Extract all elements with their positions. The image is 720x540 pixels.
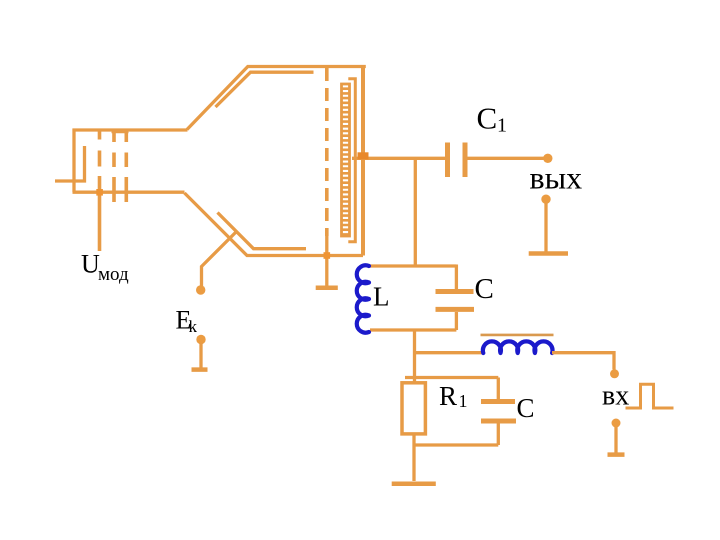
svg-text:мод: мод [98, 264, 129, 285]
node vyh lower dot [541, 195, 550, 204]
wire Ek terminal lead [199, 343, 202, 368]
junction C1 branch / right wall [358, 152, 369, 159]
middle grid dashed line [325, 68, 329, 236]
ground bar vyh [529, 251, 568, 256]
node Ek lower dot [196, 335, 205, 344]
svg-text:C: C [477, 100, 498, 135]
svg-text:k: k [189, 317, 198, 336]
tube right wall [361, 65, 365, 256]
capacitor C1 plate right [463, 143, 468, 178]
tank top wire [368, 264, 456, 267]
top horn inner wall [216, 72, 314, 107]
wire C branch lower [497, 423, 500, 445]
bottom horn inner wall [218, 213, 307, 249]
grid bracket top bar [112, 129, 129, 133]
svg-text:вх: вх [602, 381, 629, 412]
capacitor C low plate bottom [481, 419, 516, 424]
capacitor C tank plate bottom [436, 307, 475, 312]
grid dashed line g3 [125, 130, 129, 202]
wire C branch upper [497, 378, 500, 400]
resonator outline [348, 79, 355, 242]
inductor input coil [483, 341, 553, 353]
node Ek upper dot [196, 285, 205, 294]
tube cathode box left wall [72, 129, 75, 193]
grid dashed line g2 [112, 130, 116, 202]
svg-text:C: C [517, 393, 535, 423]
inductor L coil [357, 265, 369, 332]
wire R1 to ground [412, 434, 415, 481]
tube cathode box top wall [73, 128, 188, 131]
grid dashed line g1 [98, 129, 102, 167]
lead to Ek terminal [202, 232, 237, 287]
ground bar R1 [392, 481, 436, 486]
junction grid / bottom wall [324, 252, 331, 259]
capacitor C low plate top [481, 399, 515, 404]
wire R1C top [405, 376, 498, 379]
ground bar of middle grid [316, 285, 338, 290]
wire vyh ground lead [544, 204, 547, 252]
wire anode feed down [414, 158, 417, 266]
svg-text:R: R [439, 381, 457, 411]
wire R1C bottom [414, 443, 498, 446]
node vh lower dot [612, 419, 621, 428]
wire C1 to vyh node [468, 157, 544, 160]
svg-text:L: L [373, 282, 390, 312]
transformer core line [481, 334, 554, 337]
wire C1 branch from resonator [352, 157, 445, 160]
cathode electrode [55, 146, 85, 181]
resistor R1 body [402, 383, 425, 434]
junction U-lead / bottom wall [96, 189, 103, 196]
wire middle grid to ground [325, 236, 328, 286]
wire to input coil [415, 351, 484, 354]
top horn outer wall [187, 67, 366, 130]
tank bottom wire [370, 328, 456, 331]
tube cathode box bottom wall [73, 191, 185, 194]
wire vh ground lead [614, 427, 617, 453]
svg-text:C: C [475, 273, 494, 305]
svg-text:1: 1 [497, 115, 507, 137]
wire U mod lead [98, 176, 102, 251]
node vh input dot [610, 369, 619, 378]
ground bar Ek terminal [192, 367, 208, 372]
svg-text:1: 1 [459, 391, 468, 411]
wire tank right side [455, 265, 458, 331]
wire coil to vh node [552, 353, 614, 370]
node vyh output dot [543, 154, 552, 163]
capacitor C tank plate top [436, 289, 474, 294]
pulse waveform symbol [626, 384, 674, 408]
ground bar vh [608, 452, 625, 457]
capacitor C1 plate left [445, 143, 450, 178]
bottom horn outer wall [185, 193, 364, 256]
svg-text:вых: вых [530, 160, 583, 196]
wire tank to R1 [413, 330, 416, 383]
resonator ladder column [342, 84, 350, 236]
